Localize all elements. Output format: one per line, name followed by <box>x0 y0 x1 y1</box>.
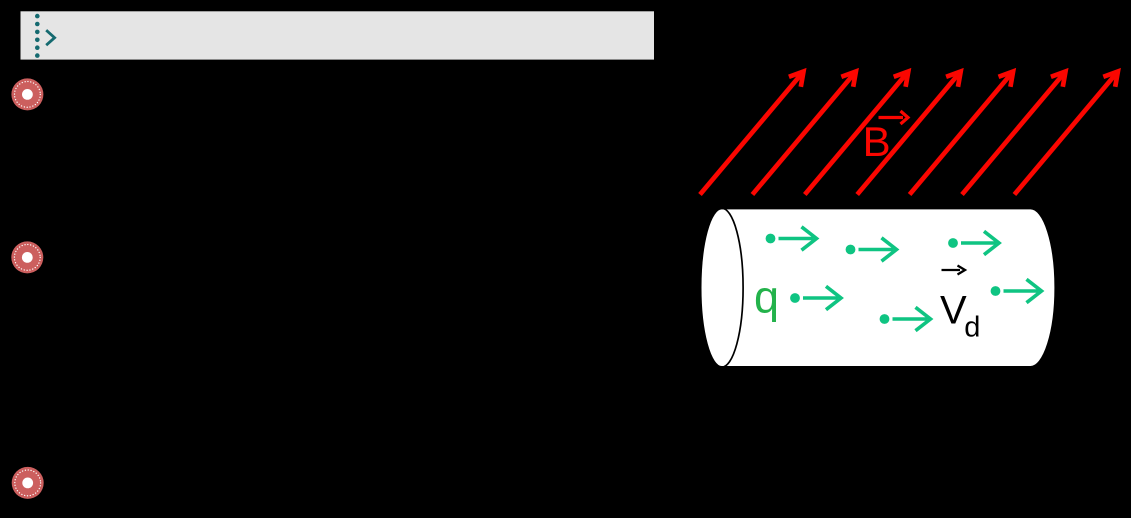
magnetic field arrow 4 <box>857 72 961 195</box>
svg-text:q: q <box>754 272 779 323</box>
vector arrow over B <box>879 111 909 124</box>
magnetic field arrow 6 <box>962 72 1066 195</box>
bullet 1 <box>11 78 43 110</box>
teal chevron icon <box>46 30 54 45</box>
charge carrier 2 <box>846 238 897 261</box>
charge carrier 5 <box>880 307 931 330</box>
magnetic field arrow 3 <box>805 72 909 195</box>
charge carrier 3 <box>948 231 999 254</box>
magnetic field arrow 5 <box>910 72 1014 195</box>
bullet 3 <box>12 467 44 499</box>
vector arrow over Vd <box>942 266 966 275</box>
wire cylinder body <box>700 208 1055 367</box>
magnetic field arrow 1 <box>700 72 804 195</box>
wire left end ellipse <box>700 208 743 367</box>
charge carrier 1 <box>766 227 817 250</box>
svg-text:B: B <box>863 118 891 165</box>
charge carrier 6 <box>991 279 1042 302</box>
charge carrier 4 <box>790 286 841 309</box>
magnetic field arrow 7 <box>1014 72 1118 195</box>
magnetic field arrow 2 <box>752 72 856 195</box>
teal dotted divider line <box>35 14 40 58</box>
bullet 2 <box>11 241 43 273</box>
title placeholder bar <box>21 11 655 59</box>
